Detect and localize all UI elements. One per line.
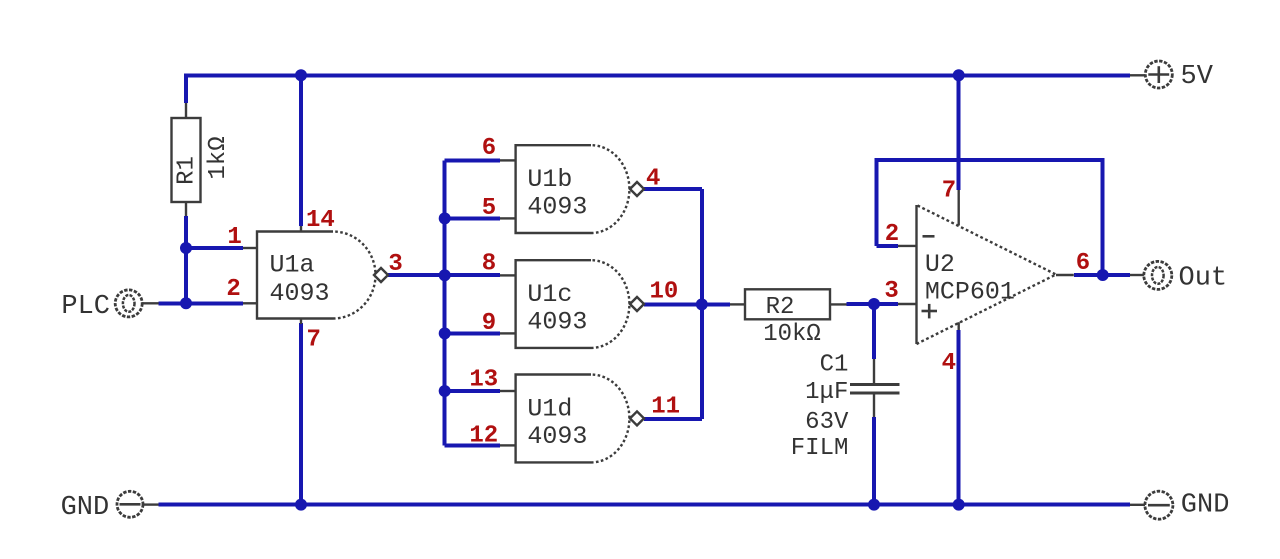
svg-text:8: 8	[482, 251, 496, 278]
svg-text:FILM: FILM	[791, 435, 849, 462]
svg-text:6: 6	[482, 135, 496, 162]
svg-text:5: 5	[482, 195, 496, 222]
svg-text:14: 14	[306, 207, 335, 234]
svg-text:3: 3	[884, 278, 898, 305]
svg-text:PLC: PLC	[61, 292, 110, 322]
svg-text:7: 7	[306, 327, 320, 354]
svg-text:4: 4	[646, 166, 660, 193]
svg-text:5V: 5V	[1181, 62, 1214, 92]
svg-text:MCP601: MCP601	[925, 278, 1015, 307]
svg-text:4: 4	[942, 350, 956, 377]
svg-text:63V: 63V	[805, 409, 849, 436]
svg-text:U1c: U1c	[527, 280, 572, 309]
svg-text:1μF: 1μF	[805, 379, 848, 406]
svg-text:4093: 4093	[527, 193, 587, 222]
svg-text:4093: 4093	[527, 422, 587, 451]
svg-text:10kΩ: 10kΩ	[763, 321, 821, 348]
svg-text:Out: Out	[1179, 264, 1228, 294]
svg-text:4093: 4093	[527, 308, 587, 337]
svg-text:2: 2	[885, 221, 899, 248]
svg-text:2: 2	[226, 276, 240, 303]
svg-text:GND: GND	[1181, 491, 1230, 521]
svg-text:6: 6	[1076, 250, 1090, 277]
svg-text:13: 13	[469, 367, 498, 394]
svg-text:11: 11	[651, 394, 680, 421]
svg-text:C1: C1	[820, 352, 849, 379]
svg-text:1kΩ: 1kΩ	[205, 136, 232, 179]
svg-text:GND: GND	[61, 493, 110, 523]
svg-text:4093: 4093	[270, 279, 330, 308]
svg-text:U1b: U1b	[527, 165, 572, 194]
svg-text:U1a: U1a	[270, 251, 315, 280]
svg-text:10: 10	[649, 279, 678, 306]
svg-text:R2: R2	[766, 294, 795, 321]
svg-text:U1d: U1d	[527, 394, 572, 423]
svg-text:3: 3	[388, 251, 402, 278]
svg-text:1: 1	[227, 224, 241, 251]
svg-text:U2: U2	[925, 250, 955, 279]
svg-text:12: 12	[469, 423, 498, 450]
svg-text:9: 9	[482, 310, 496, 337]
svg-text:7: 7	[942, 178, 956, 205]
svg-text:R1: R1	[174, 156, 201, 185]
